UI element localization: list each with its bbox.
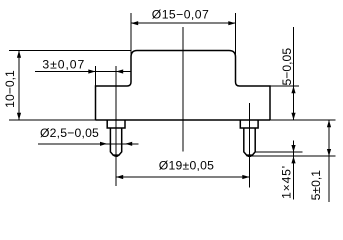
svg-text:Ø15−0,07: Ø15−0,07 [152, 8, 209, 22]
svg-text:3±0,07: 3±0,07 [42, 57, 85, 71]
svg-text:5±0,1: 5±0,1 [309, 170, 323, 201]
svg-text:1×45': 1×45' [280, 165, 294, 199]
svg-text:Ø19±0,05: Ø19±0,05 [159, 158, 214, 172]
svg-text:Ø2,5−0,05: Ø2,5−0,05 [40, 126, 99, 140]
svg-text:10−0,1: 10−0,1 [3, 70, 17, 108]
svg-text:5−0,05: 5−0,05 [280, 48, 294, 86]
